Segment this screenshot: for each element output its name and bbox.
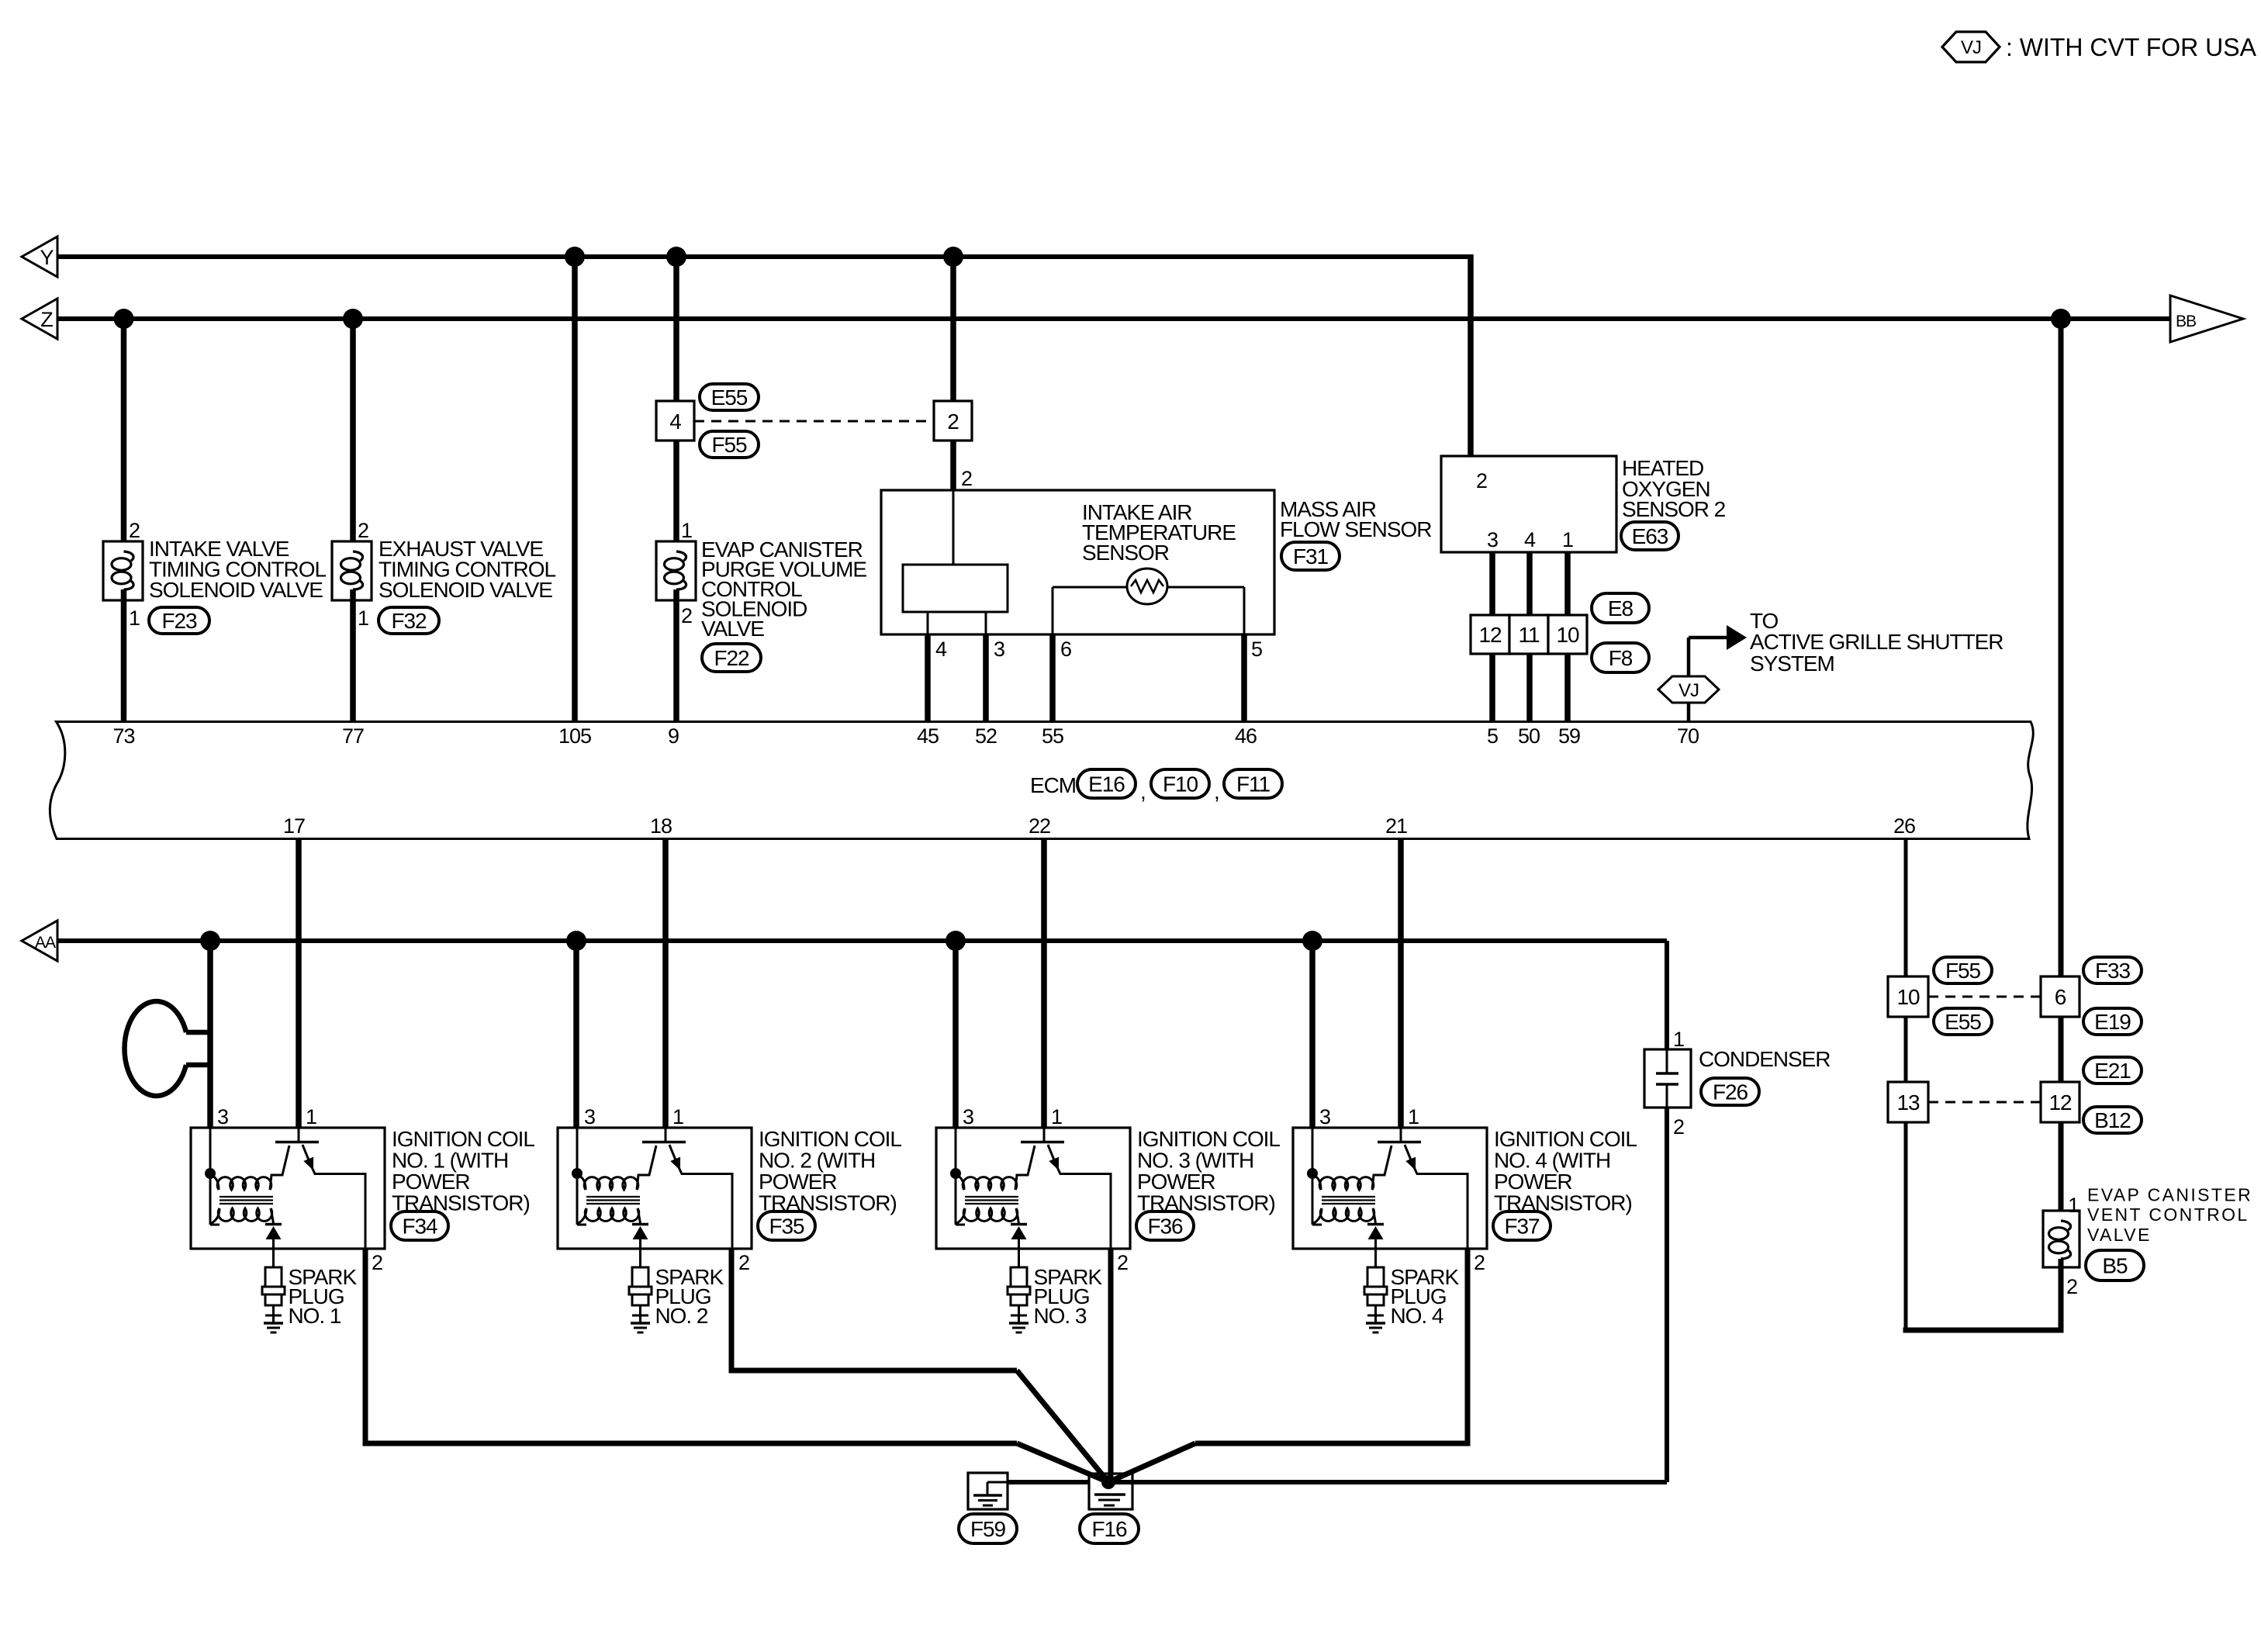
svg-text:E8: E8	[1608, 596, 1634, 620]
svg-text:45: 45	[917, 724, 939, 748]
wire Y to HO2S pin 2	[1468, 254, 1474, 456]
wire ECM pin 21 to ignition coil 4 pin 1	[1398, 839, 1404, 1128]
junction dot AA/coil2	[566, 931, 586, 951]
bus Z arrow terminal	[22, 299, 57, 339]
svg-text:5: 5	[1487, 724, 1498, 748]
connector oval F26	[1701, 1078, 1759, 1105]
inline connector pin 10 (F55/E55)	[1888, 976, 1928, 1017]
svg-text:NO. 2: NO. 2	[655, 1304, 708, 1328]
wire ECM pin 18 to ignition coil 2 pin 1	[662, 839, 669, 1128]
connector oval E55 (right)	[1934, 1008, 1992, 1035]
svg-text:FLOW SENSOR: FLOW SENSOR	[1280, 517, 1431, 541]
svg-text:1: 1	[1673, 1028, 1684, 1051]
coil 4 internal junction dot	[1307, 1168, 1318, 1179]
F22 pin 2 label	[681, 604, 692, 627]
svg-text:1: 1	[358, 607, 368, 630]
spark plug 1 ground	[264, 1323, 283, 1332]
coil 4 transformer primary winding	[1312, 1146, 1392, 1190]
svg-text:77: 77	[342, 724, 364, 748]
svg-text:NO. 3: NO. 3	[1034, 1304, 1087, 1328]
inline connector pin 12 (E21/B12)	[2041, 1082, 2079, 1122]
spark plug 4 label	[1391, 1265, 1460, 1328]
svg-text:POWER: POWER	[759, 1170, 837, 1194]
condenser pin 2 label	[1673, 1115, 1684, 1139]
ECM top pin 9 label	[668, 724, 679, 748]
connector oval F31	[1281, 542, 1340, 570]
intake air temperature sensor (thermistor)	[1053, 569, 1244, 634]
HO2S pin 3 label	[1487, 528, 1498, 551]
wire ECM pin 17 to ignition coil 1 pin 1	[296, 839, 302, 1128]
MAF internal stubs to pins 4 and 3	[928, 612, 986, 634]
svg-text:F10: F10	[1163, 772, 1198, 796]
ECM connector strip	[50, 722, 2033, 839]
coil 3 name label	[1137, 1127, 1280, 1215]
svg-text:1: 1	[1051, 1105, 1062, 1128]
spark plug 3 ground	[1009, 1323, 1029, 1332]
svg-text:IGNITION COIL: IGNITION COIL	[759, 1127, 901, 1151]
spark plug 2 label	[655, 1265, 724, 1328]
wire AA corner down to condenser pin 1	[1665, 941, 1669, 1049]
wire HO2S pin 4	[1526, 552, 1533, 615]
connector oval E55 (upper)	[700, 384, 759, 410]
MAF internal wire from pin 2	[952, 490, 955, 565]
coil 2 power transistor	[642, 1128, 732, 1249]
svg-text:11: 11	[1519, 623, 1540, 647]
wire MAF pin 5 to ECM pin 46	[1241, 634, 1247, 721]
coil 4 name label	[1494, 1127, 1637, 1215]
coil 3 pin 1 label	[1051, 1105, 1062, 1128]
svg-text:F11: F11	[1236, 772, 1270, 796]
svg-text:1: 1	[681, 519, 692, 542]
ECM top pin 45 label	[917, 724, 939, 748]
wire MAF pin 4 to ECM pin 45	[925, 634, 931, 721]
svg-text:46: 46	[1235, 724, 1257, 748]
MAF pin 3 label	[994, 638, 1004, 661]
bus AA arrow terminal	[22, 921, 57, 961]
svg-text:17: 17	[283, 814, 305, 838]
coil 3 power transistor	[1021, 1128, 1111, 1249]
wire Z to F32 pin 2	[350, 319, 356, 552]
spark plug no. 4	[1364, 1249, 1387, 1323]
F32 pin 2 label	[358, 519, 368, 542]
svg-text:VALVE: VALVE	[2087, 1225, 2152, 1245]
svg-text:B5: B5	[2102, 1253, 2128, 1277]
wire Z branch down right side	[2059, 319, 2064, 976]
svg-text:F37: F37	[1504, 1214, 1540, 1238]
coil 2 pin 2 label	[738, 1251, 749, 1274]
coil 4 internal primary feed wire	[1312, 1128, 1322, 1225]
spark plug no. 3	[1008, 1249, 1030, 1323]
svg-text:73: 73	[113, 724, 135, 748]
B5 pin 2 label	[2066, 1275, 2077, 1298]
coil 1 pin 1 label	[306, 1105, 316, 1128]
wire F23 pin 1 to ECM pin 73	[121, 589, 127, 721]
coil 2 internal junction dot	[572, 1168, 583, 1179]
svg-text:1: 1	[1562, 528, 1573, 551]
coil 1 pin 3 label	[217, 1105, 228, 1128]
svg-text:3: 3	[994, 638, 1004, 661]
coil 2 secondary diode	[632, 1225, 648, 1249]
coil 2 pin 1 label	[672, 1105, 683, 1128]
wire Y to EVAP purge valve	[673, 257, 679, 552]
wire AA to ignition coil 4 pin 3	[1309, 941, 1315, 1128]
svg-text:3: 3	[1487, 528, 1498, 551]
ECM top pin 70 label	[1677, 724, 1699, 748]
svg-text:22: 22	[1029, 814, 1050, 838]
svg-text:F26: F26	[1713, 1080, 1748, 1104]
wire to ECM pin 59	[1564, 654, 1571, 721]
HO2S pin 4 label	[1524, 528, 1536, 551]
svg-text:CONDENSER: CONDENSER	[1699, 1047, 1830, 1071]
ECM bottom pin 22 label	[1029, 814, 1050, 838]
svg-text:,: ,	[1214, 779, 1219, 804]
svg-text:VJ: VJ	[1678, 680, 1699, 701]
svg-text:12: 12	[2048, 1090, 2072, 1115]
coil 3 internal primary feed wire	[956, 1128, 965, 1225]
connector oval E21	[2083, 1057, 2142, 1083]
coil 1 power transistor	[275, 1128, 365, 1249]
dashed link 13 to 12	[1928, 1101, 2041, 1104]
svg-text:2: 2	[738, 1251, 749, 1274]
wire connector 6 to 12	[2059, 1017, 2064, 1082]
connector oval F55 (lower)	[700, 431, 759, 458]
coil 1 transformer core	[220, 1197, 273, 1204]
wire HO2S pin 3	[1489, 552, 1495, 615]
connector oval E8	[1592, 593, 1649, 623]
svg-text:POWER: POWER	[1494, 1170, 1572, 1194]
coil 1 name label	[392, 1127, 534, 1215]
svg-text:3: 3	[1319, 1105, 1330, 1128]
coil 4 secondary diode	[1367, 1225, 1384, 1249]
svg-text:1: 1	[129, 607, 140, 630]
svg-text:2: 2	[1117, 1251, 1128, 1274]
wire ECM pin 26 down to connector 10	[1904, 839, 1908, 976]
svg-text:F55: F55	[1945, 959, 1981, 983]
MAF internal element box	[903, 565, 1008, 612]
svg-text:12: 12	[1478, 623, 1502, 647]
svg-text:F35: F35	[769, 1214, 804, 1238]
heated oxygen sensor 2 box E63	[1441, 456, 1616, 552]
coil 1 internal primary feed wire	[210, 1128, 220, 1225]
svg-text:2: 2	[2066, 1275, 2077, 1298]
condenser name label	[1699, 1047, 1830, 1071]
svg-text:NO. 4: NO. 4	[1391, 1304, 1443, 1328]
junction dot AA/coil4	[1302, 931, 1322, 951]
coil 4 pin 3 label	[1319, 1105, 1330, 1128]
ignition coil U3 box (with power transistor) F36	[936, 1128, 1130, 1249]
connector oval F35	[758, 1211, 815, 1240]
svg-text:F34: F34	[402, 1214, 437, 1238]
connector oval B5	[2086, 1250, 2144, 1280]
F22 pin 1 label	[681, 519, 692, 542]
svg-text:1: 1	[672, 1105, 683, 1128]
connector oval F37	[1493, 1211, 1551, 1240]
svg-text:2: 2	[947, 410, 959, 434]
svg-text:F8: F8	[1609, 646, 1633, 670]
coil 2 transformer primary winding	[577, 1146, 656, 1190]
bus AA horizontal wire	[57, 938, 1667, 943]
F23 component name	[149, 537, 326, 602]
wire to ECM pin 50	[1526, 654, 1533, 721]
coil 4 pin 2 label	[1474, 1251, 1485, 1274]
svg-text:1: 1	[306, 1105, 316, 1128]
ECM top pin 46 label	[1235, 724, 1257, 748]
svg-text:9: 9	[668, 724, 679, 748]
wire HO2S pin 1	[1564, 552, 1571, 615]
svg-text:59: 59	[1558, 724, 1580, 748]
svg-text:F36: F36	[1147, 1214, 1183, 1238]
svg-text:1: 1	[1408, 1105, 1419, 1128]
spark plug 3 label	[1034, 1265, 1103, 1328]
coil 3 transformer core	[965, 1197, 1018, 1204]
wire coil 1 pin 2 to ground junction	[363, 1249, 1109, 1482]
F23 pin 1 label	[129, 607, 140, 630]
svg-text:4: 4	[1524, 528, 1536, 551]
wire coil 4 pin 2 to ground junction	[1108, 1249, 1471, 1482]
wire AA to ignition coil 3 pin 3	[952, 941, 959, 1128]
svg-text:NO. 1 (WITH: NO. 1 (WITH	[392, 1149, 508, 1173]
MAF pin 4 label	[935, 638, 947, 661]
svg-text:IGNITION COIL: IGNITION COIL	[1137, 1127, 1280, 1151]
junction dot Z/F23	[114, 309, 134, 329]
svg-text:VJ: VJ	[1961, 37, 1981, 58]
mass air flow sensor box F31	[881, 490, 1274, 634]
svg-text:E16: E16	[1088, 772, 1125, 796]
svg-text:E55: E55	[1945, 1010, 1981, 1034]
wire condenser pin 2 to ground junction	[1108, 1108, 1667, 1482]
VJ option hexagon at pin 70	[1658, 676, 1719, 703]
coil 1 internal junction dot	[205, 1168, 216, 1179]
connector oval E19	[2083, 1008, 2142, 1035]
wire vent valve pin 2 down	[2059, 1259, 2064, 1330]
svg-text:70: 70	[1677, 724, 1699, 748]
svg-text:10: 10	[1556, 623, 1579, 647]
junction dot AA/coil3	[946, 931, 966, 951]
bottom link wire between chains	[1903, 1328, 2064, 1333]
svg-text:F23: F23	[161, 609, 197, 633]
svg-text:F59: F59	[970, 1517, 1006, 1541]
ground junction dot F16	[1101, 1475, 1115, 1489]
svg-text:13: 13	[1896, 1090, 1920, 1115]
coil 1 pin 2 label	[372, 1251, 382, 1274]
connector oval F55 (right)	[1934, 957, 1992, 983]
ground F59	[968, 1473, 1008, 1509]
MAF pin 2 label	[961, 467, 972, 490]
svg-text:5: 5	[1251, 638, 1262, 661]
svg-text:2: 2	[681, 604, 692, 627]
svg-text:BB: BB	[2176, 313, 2196, 330]
svg-text:3: 3	[217, 1105, 228, 1128]
B5 name label	[2087, 1185, 2252, 1246]
ECM top pin 5 label	[1487, 724, 1498, 748]
svg-text:1: 1	[2068, 1194, 2079, 1217]
svg-text:105: 105	[558, 724, 591, 748]
ECM top pin 105 label	[558, 724, 591, 748]
HO2S name label	[1622, 456, 1726, 521]
svg-text:SYSTEM: SYSTEM	[1750, 651, 1834, 676]
coil 2 transformer secondary winding	[577, 1208, 641, 1224]
svg-text:SENSOR 2: SENSOR 2	[1622, 497, 1726, 521]
dashed connector link 4 to 2	[694, 420, 934, 423]
svg-text:POWER: POWER	[1137, 1170, 1215, 1194]
connector oval F23	[149, 607, 209, 634]
junction dot Y/EVAP purge	[666, 247, 686, 267]
MAF pin 5 label	[1251, 638, 1262, 661]
inline connector row E8/F8 pin 11	[1509, 615, 1548, 654]
ECM bottom pin 26 label	[1893, 814, 1915, 838]
legend VJ hexagon	[1942, 32, 2000, 62]
ground F16	[1089, 1474, 1132, 1509]
inline connector pin 6 (F33/E19)	[2041, 976, 2079, 1017]
inline connector pin 4 (E55/F55)	[656, 401, 694, 441]
junction dot Y/105	[565, 247, 585, 267]
junction dot Z/vent valve branch	[2051, 309, 2071, 329]
wire AA to ignition coil 1 pin 3	[207, 941, 213, 1128]
connector oval F16	[1080, 1514, 1139, 1543]
svg-text:IGNITION COIL: IGNITION COIL	[1494, 1127, 1637, 1151]
svg-text:E63: E63	[1632, 524, 1668, 548]
F32 pin 1 label	[358, 607, 368, 630]
condenser F26	[1644, 1049, 1691, 1108]
wire F59 to F16	[1008, 1480, 1089, 1484]
ECM bottom pin 18 label	[650, 814, 672, 838]
wire connector 10 to 13	[1904, 1017, 1908, 1082]
junction dot Y/MAF	[943, 247, 963, 267]
coil 3 secondary diode	[1011, 1225, 1027, 1249]
connector oval F59	[959, 1514, 1017, 1543]
svg-text:SOLENOID VALVE: SOLENOID VALVE	[149, 578, 323, 602]
svg-text:E55: E55	[711, 385, 748, 410]
coil 3 transformer secondary winding	[956, 1208, 1019, 1224]
svg-text:SOLENOID VALVE: SOLENOID VALVE	[379, 578, 552, 602]
connector oval F32	[379, 607, 439, 634]
coil 3 transformer primary winding	[956, 1146, 1035, 1190]
ECM top pin 50 label	[1518, 724, 1540, 748]
connector oval F22	[702, 644, 761, 672]
svg-text:,: ,	[1140, 779, 1146, 804]
svg-text:3: 3	[963, 1105, 973, 1128]
svg-text:POWER: POWER	[392, 1170, 470, 1194]
junction dot AA/coil1	[200, 931, 220, 951]
svg-text:VALVE: VALVE	[701, 617, 764, 641]
inline connector row E8/F8 pin 10	[1548, 615, 1587, 654]
svg-text:2: 2	[1476, 469, 1487, 492]
ECM top pin 52 label	[975, 724, 997, 748]
EVAP canister vent control valve B5	[2043, 1211, 2079, 1267]
svg-text:NO. 3 (WITH: NO. 3 (WITH	[1137, 1149, 1253, 1173]
svg-text:26: 26	[1893, 814, 1915, 838]
svg-text:2: 2	[358, 519, 368, 542]
coil 2 name label	[759, 1127, 901, 1215]
ECM bottom pin 21 label	[1385, 814, 1407, 838]
coil 4 transformer secondary winding	[1312, 1208, 1376, 1224]
ignition coil U4 box (with power transistor) F37	[1293, 1128, 1487, 1249]
legend text WITH CVT FOR USA	[2006, 33, 2257, 61]
wire MAF pin 3 to ECM pin 52	[983, 634, 989, 721]
svg-text:4: 4	[669, 410, 681, 434]
solenoid valve F32 (exhaust valve timing control)	[332, 541, 372, 600]
svg-text:21: 21	[1385, 814, 1407, 838]
active grille shutter text	[1750, 609, 2003, 676]
svg-text:VENT CONTROL: VENT CONTROL	[2087, 1204, 2249, 1225]
svg-text:52: 52	[975, 724, 997, 748]
solenoid valve F22 (EVAP canister purge volume control)	[656, 541, 696, 600]
inline connector pin 13 (E21/B12)	[1888, 1082, 1928, 1122]
coil 4 pin 1 label	[1408, 1105, 1419, 1128]
wire coil 2 pin 2 to ground junction	[729, 1249, 1109, 1482]
svg-text:10: 10	[1896, 985, 1920, 1009]
noise suppressor loop on coil 1 feed wire	[125, 1001, 210, 1096]
MAF pin 6 label	[1060, 638, 1071, 661]
wire F22 pin 2 to ECM pin 9	[673, 589, 679, 721]
spark plug 4 ground	[1366, 1323, 1385, 1332]
coil 4 power transistor	[1378, 1128, 1468, 1249]
connector oval F34	[391, 1211, 448, 1240]
svg-text:2: 2	[129, 519, 140, 542]
svg-text:NO. 2 (WITH: NO. 2 (WITH	[759, 1149, 875, 1173]
svg-text:3: 3	[584, 1105, 595, 1128]
wire connector 12 down to vent valve pin 1	[2059, 1122, 2064, 1222]
bus Y arrow terminal	[22, 237, 57, 277]
wire MAF pin 6 to ECM pin 55	[1049, 634, 1056, 721]
ECM top pin 77 label	[342, 724, 364, 748]
svg-text:50: 50	[1518, 724, 1540, 748]
arrow to active grille shutter system	[1689, 625, 1747, 676]
coil 3 internal junction dot	[950, 1168, 961, 1179]
inline connector row E8/F8 pin 12	[1471, 615, 1509, 654]
coil 3 pin 3 label	[963, 1105, 973, 1128]
svg-text:B12: B12	[2094, 1108, 2131, 1132]
dashed link 10 to 6	[1928, 996, 2041, 998]
svg-text:IGNITION COIL: IGNITION COIL	[392, 1127, 534, 1151]
ECM top pin 55 label	[1042, 724, 1063, 748]
svg-text:Y: Y	[40, 246, 54, 269]
svg-text:4: 4	[935, 638, 947, 661]
svg-text:F16: F16	[1091, 1517, 1127, 1541]
wire ECM pin 70 to VJ	[1687, 703, 1691, 721]
connector oval E63	[1621, 522, 1678, 550]
svg-text:2: 2	[1673, 1115, 1684, 1139]
wire F32 pin 1 to ECM pin 77	[350, 589, 356, 721]
bus BB arrow terminal	[2170, 295, 2243, 342]
svg-text:NO. 1: NO. 1	[289, 1304, 341, 1328]
bus Y horizontal wire	[57, 254, 1471, 259]
wire connector 13 down	[1904, 1122, 1908, 1330]
svg-text:2: 2	[372, 1251, 382, 1274]
svg-text:6: 6	[2055, 985, 2066, 1009]
wire AA to ignition coil 2 pin 3	[573, 941, 579, 1128]
F32 component name	[379, 537, 555, 602]
connector oval B12	[2083, 1107, 2142, 1133]
spark plug no. 2	[629, 1249, 652, 1323]
svg-text:E21: E21	[2094, 1059, 2131, 1083]
wire to ECM pin 5	[1489, 654, 1495, 721]
F23 pin 2 label	[129, 519, 140, 542]
svg-text:EVAP CANISTER: EVAP CANISTER	[2087, 1185, 2252, 1205]
svg-text:2: 2	[961, 467, 972, 490]
svg-text:Z: Z	[40, 308, 53, 331]
connector oval F8	[1592, 643, 1649, 672]
coil 1 transformer primary winding	[210, 1146, 289, 1190]
ECM top pin 73 label	[113, 724, 135, 748]
junction dot Z/F32	[343, 309, 363, 329]
connector oval F33	[2083, 957, 2142, 983]
coil 2 pin 3 label	[584, 1105, 595, 1128]
condenser pin 1 label	[1673, 1028, 1684, 1051]
coil 1 secondary diode	[265, 1225, 282, 1249]
ignition coil U1 box (with power transistor) F34	[191, 1128, 385, 1249]
svg-text:F31: F31	[1293, 544, 1329, 569]
